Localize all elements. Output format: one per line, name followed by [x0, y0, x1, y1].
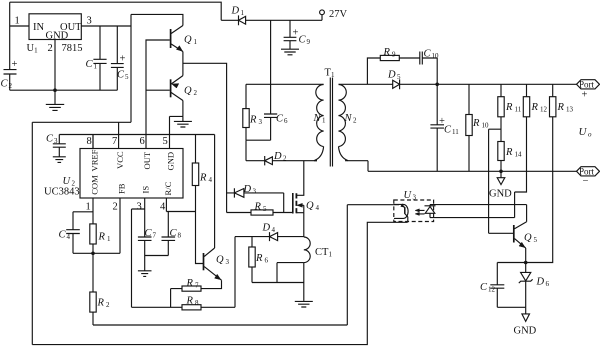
wire output return rail	[368, 170, 577, 172]
opto light arrows	[417, 210, 425, 214]
wire 27V riser to primary top	[270, 20, 272, 84]
svg-text:UC3843: UC3843	[44, 187, 80, 198]
arrow Q3 emitter	[215, 274, 221, 279]
inductor CT1	[304, 237, 310, 263]
node divider ground junction	[499, 170, 503, 174]
resistor R1	[90, 224, 96, 244]
capacitor C8	[162, 212, 176, 256]
wire driver emitters to gate network	[183, 63, 227, 212]
resistor R13	[552, 84, 554, 96]
wire left VCC frame down	[31, 122, 33, 344]
svg-text:13: 13	[566, 106, 574, 114]
wire ground rail under 7815	[10, 89, 118, 91]
svg-text:2: 2	[353, 117, 357, 125]
wire emitter node to C12	[497, 263, 525, 285]
svg-text:7: 7	[112, 136, 117, 147]
svg-text:OUT: OUT	[142, 151, 152, 169]
svg-text:C: C	[170, 228, 178, 239]
wire snubber bottom to D2	[246, 140, 271, 161]
svg-text:C: C	[480, 282, 488, 293]
svg-text:+: +	[439, 116, 445, 127]
resistor R7	[182, 286, 201, 291]
resistor R3	[245, 84, 247, 140]
snubber R9 C10 across D5	[367, 58, 437, 84]
svg-text:C: C	[276, 114, 284, 125]
svg-text:C: C	[46, 134, 54, 145]
capacitor C4	[66, 212, 80, 254]
svg-text:CT: CT	[315, 247, 329, 258]
resistor R6	[251, 237, 253, 283]
svg-text:7: 7	[195, 282, 199, 290]
svg-text:1: 1	[194, 38, 198, 46]
svg-text:R: R	[531, 102, 539, 113]
wire Q3 emitter to R7	[201, 280, 222, 288]
svg-text:C: C	[424, 49, 432, 60]
svg-text:R: R	[97, 298, 105, 309]
svg-text:3: 3	[253, 188, 257, 196]
primary winding N1	[316, 85, 324, 147]
wire comp bottom rail	[73, 252, 120, 254]
svg-text:C: C	[117, 70, 125, 81]
svg-text:C: C	[145, 228, 153, 239]
svg-text:3: 3	[413, 194, 417, 202]
capacitor C1	[93, 26, 106, 90]
svg-text:3: 3	[137, 202, 142, 213]
transformer T1 core	[330, 78, 332, 167]
wire sense node down to IS bus	[234, 237, 236, 308]
svg-text:7: 7	[153, 232, 157, 240]
arrow Q1 emitter	[176, 46, 182, 52]
svg-text:14: 14	[515, 151, 523, 159]
svg-text:C: C	[299, 35, 307, 46]
svg-text:2: 2	[48, 43, 53, 54]
wire FB line to opto collector	[93, 205, 399, 325]
svg-text:4: 4	[316, 204, 320, 212]
svg-text:R: R	[98, 232, 106, 243]
svg-text:5: 5	[263, 205, 267, 213]
wire R/C down to Q3 base	[196, 212, 204, 264]
transistor Q3	[203, 253, 205, 270]
svg-text:U: U	[579, 126, 588, 138]
svg-text:2: 2	[113, 202, 118, 213]
svg-text:GND: GND	[46, 31, 69, 42]
svg-text:IS: IS	[141, 186, 151, 194]
wire pin3 stub to C7	[144, 198, 146, 237]
svg-text:12: 12	[488, 286, 496, 294]
svg-text:1: 1	[94, 63, 98, 71]
svg-text:R: R	[249, 115, 257, 126]
wire C7-C8 bottom link	[145, 255, 169, 257]
node FB compensation junction	[91, 252, 95, 256]
wire VREF bus	[59, 135, 214, 164]
wire Q4 source to CT1	[303, 213, 305, 237]
svg-text:FB: FB	[116, 183, 126, 194]
capacitor C9 electrolytic with ground	[281, 20, 299, 55]
resistor R2	[92, 253, 94, 292]
svg-text:10: 10	[482, 122, 490, 130]
wire pin1 stub and comp network top	[73, 198, 93, 224]
resistor R10	[468, 84, 470, 171]
svg-text:R: R	[505, 102, 513, 113]
wire Q2 collector ground node to pin5	[170, 116, 183, 148]
wire left rail x=9.7	[9, 2, 11, 69]
node 7815 ground junction	[53, 88, 57, 92]
svg-text:5: 5	[534, 236, 538, 244]
svg-text:COM: COM	[89, 175, 99, 195]
resistor R5	[227, 212, 293, 214]
svg-text:Port: Port	[579, 80, 595, 90]
svg-text:5: 5	[163, 136, 168, 147]
diode D4	[235, 232, 304, 241]
svg-text:R: R	[557, 102, 565, 113]
svg-text:2: 2	[106, 301, 110, 309]
wire pin8 stub	[92, 135, 94, 149]
opto LED	[425, 205, 436, 218]
regulator U1 7815 box	[29, 14, 81, 40]
wire N2 bottom to output return rail	[345, 161, 368, 172]
svg-text:3: 3	[226, 258, 230, 266]
svg-text:R: R	[255, 253, 263, 264]
capacitor C6	[264, 84, 277, 140]
zener D6	[521, 263, 531, 281]
svg-text:6: 6	[284, 117, 288, 125]
svg-text:C: C	[59, 230, 67, 241]
svg-text:IN: IN	[33, 22, 44, 33]
arrow Q4 body	[297, 203, 303, 207]
capacitor C7 with ground	[138, 237, 152, 276]
svg-text:+: +	[582, 90, 588, 101]
wire R6 bottom and CT1 tap	[252, 263, 304, 283]
wire D3 right drop to gate line	[283, 193, 285, 213]
IC U2 UC3843 box	[80, 149, 183, 199]
svg-text:11: 11	[515, 106, 522, 114]
wire VCC rail out of 7815	[81, 25, 131, 27]
svg-text:C: C	[1, 79, 9, 90]
svg-text:4: 4	[67, 233, 71, 241]
svg-text:VCC: VCC	[115, 151, 125, 169]
capacitor C10	[420, 52, 423, 65]
capacitor C3 with ground	[53, 135, 66, 163]
svg-text:R: R	[383, 47, 391, 58]
svg-text:N: N	[313, 113, 322, 124]
svg-text:1: 1	[329, 251, 333, 259]
svg-text:R: R	[186, 296, 194, 307]
wire N2 top to D5	[339, 83, 393, 85]
svg-text:Q: Q	[306, 201, 314, 212]
svg-text:8: 8	[195, 299, 199, 307]
svg-text:o: o	[588, 131, 592, 139]
node zener reference junction	[524, 261, 528, 265]
wire bottom frame to opto emitter riser	[32, 222, 407, 344]
ground arrow bottom right	[522, 314, 530, 322]
wire LED cathode line to Q5 collector	[430, 205, 527, 222]
svg-text:12: 12	[540, 106, 548, 114]
svg-text:9: 9	[392, 51, 396, 59]
diode D1	[221, 15, 322, 25]
capacitor C12	[490, 285, 504, 308]
svg-text:−: −	[583, 176, 589, 187]
svg-text:1: 1	[86, 202, 91, 213]
svg-text:Q: Q	[184, 86, 192, 97]
svg-text:4: 4	[209, 176, 213, 184]
svg-text:Q: Q	[524, 233, 532, 244]
wire pin2 FB drop	[119, 198, 121, 253]
wire output rail to Port+	[400, 83, 577, 85]
svg-text:N: N	[344, 113, 353, 124]
svg-text:1: 1	[331, 71, 335, 79]
svg-text:27V: 27V	[329, 9, 348, 20]
svg-text:3: 3	[54, 137, 58, 145]
svg-text:R/C: R/C	[163, 181, 173, 195]
resistor R4	[192, 163, 198, 186]
svg-text:+: +	[120, 54, 126, 65]
svg-text:10: 10	[432, 52, 440, 60]
svg-text:R: R	[472, 118, 480, 129]
optocoupler U3 dashed box	[394, 200, 434, 222]
wire CT1 to ground	[303, 263, 305, 301]
svg-text:1: 1	[322, 117, 326, 125]
svg-text:D: D	[243, 184, 252, 195]
capacitor C2 electrolytic	[4, 70, 17, 74]
svg-text:R: R	[186, 278, 194, 289]
svg-text:6: 6	[140, 136, 145, 147]
wire drain riser	[297, 161, 304, 196]
capacitor C5 electrolytic	[111, 26, 124, 90]
arrow Q2 emitter (PNP, pointing into bar)	[172, 84, 179, 88]
svg-text:5: 5	[397, 73, 401, 81]
svg-text:4: 4	[272, 226, 276, 234]
svg-text:D: D	[231, 6, 240, 17]
svg-text:11: 11	[452, 128, 459, 136]
wire VCC vertical and to IC pin7	[32, 14, 131, 148]
node rectifier output junction	[435, 83, 439, 87]
arrow Q5 emitter	[519, 242, 525, 247]
svg-text:2: 2	[283, 155, 287, 163]
svg-text:D: D	[536, 277, 545, 288]
opto phototransistor	[394, 204, 408, 218]
wire pin3 branch to IS riser	[132, 209, 145, 307]
svg-text:R: R	[254, 202, 262, 213]
port+ tag	[577, 80, 600, 89]
diode D3	[227, 188, 284, 197]
transistor Q5	[513, 225, 515, 243]
wire 7815 GND pin down	[54, 40, 56, 91]
diode D5	[393, 79, 400, 89]
svg-text:Q: Q	[216, 255, 224, 266]
wire UC3843 OUT pin6 to driver bases	[146, 40, 170, 149]
ground symbol under 7815	[46, 90, 64, 110]
svg-text:5: 5	[125, 73, 129, 81]
wire divider tap to Q5 base	[489, 129, 514, 233]
terminal 27V	[320, 10, 325, 15]
wire R12 lead down to LED anode jog	[430, 117, 527, 218]
ground symbol at Q2	[174, 116, 192, 127]
wire pin4 R/C line	[166, 198, 195, 212]
wire primary top rail	[246, 83, 324, 85]
svg-text:8: 8	[178, 232, 182, 240]
svg-text:C: C	[86, 59, 94, 70]
transistor Q1	[170, 29, 172, 48]
wire zener bottom bus	[497, 307, 525, 313]
diode D2	[246, 156, 317, 165]
svg-text:9: 9	[307, 38, 311, 46]
resistor R14	[498, 142, 504, 161]
port- tag	[577, 167, 600, 176]
IS bus with resistor R8	[132, 306, 236, 308]
svg-text:3: 3	[87, 16, 92, 27]
ground arrow at divider	[497, 171, 505, 184]
wire VREF to Q3 collector	[214, 135, 216, 249]
svg-text:R: R	[505, 147, 513, 158]
secondary winding N2	[339, 85, 347, 147]
svg-text:2: 2	[194, 89, 198, 97]
svg-text:8: 8	[87, 136, 92, 147]
svg-text:1: 1	[241, 9, 245, 17]
resistor R11	[500, 84, 502, 141]
svg-text:1: 1	[15, 16, 20, 27]
svg-text:GND: GND	[166, 152, 176, 171]
svg-text:D: D	[262, 223, 271, 234]
svg-text:D: D	[387, 70, 396, 81]
svg-text:GND: GND	[514, 326, 537, 337]
svg-text:2: 2	[9, 82, 13, 90]
svg-text:+: +	[293, 28, 299, 39]
svg-text:C: C	[444, 125, 452, 136]
MOSFET Q4	[292, 193, 294, 214]
resistor R12	[526, 84, 528, 96]
svg-text:+: +	[12, 59, 18, 70]
svg-text:D: D	[273, 151, 282, 162]
transistor Q2	[170, 79, 172, 97]
svg-text:4: 4	[160, 202, 166, 213]
svg-text:6: 6	[546, 280, 550, 288]
capacitor C11 electrolytic	[430, 84, 444, 171]
svg-text:R: R	[199, 173, 207, 184]
svg-text:6: 6	[265, 257, 269, 265]
svg-text:GND: GND	[489, 189, 512, 200]
ground symbol under CT1	[295, 301, 313, 307]
svg-text:3: 3	[259, 118, 263, 126]
svg-text:VREF: VREF	[89, 149, 99, 171]
resistor R9	[380, 55, 399, 60]
wire R13 lead down to zener node	[526, 117, 553, 263]
wire VCC top to Q1 collector	[131, 14, 183, 25]
svg-text:7815: 7815	[62, 43, 83, 54]
wire pin1 to regulator	[10, 25, 29, 27]
wire top border from D1 to 7815 input	[10, 2, 222, 20]
svg-text:1: 1	[107, 235, 111, 243]
svg-text:Q: Q	[184, 35, 192, 46]
